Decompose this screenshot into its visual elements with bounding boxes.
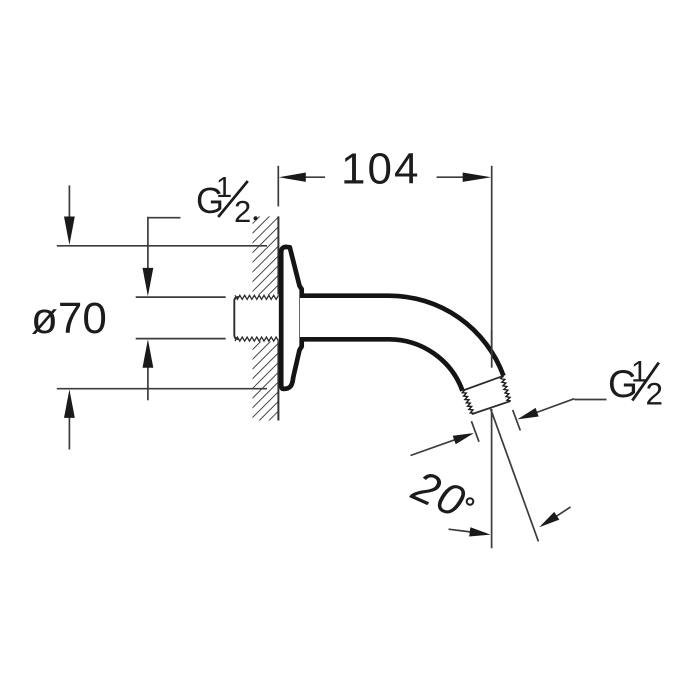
svg-text:2: 2 <box>646 376 664 412</box>
svg-text:104: 104 <box>341 145 420 194</box>
svg-text:2: 2 <box>234 194 251 229</box>
svg-text:ø70: ø70 <box>31 294 107 343</box>
svg-text:1: 1 <box>216 172 232 204</box>
